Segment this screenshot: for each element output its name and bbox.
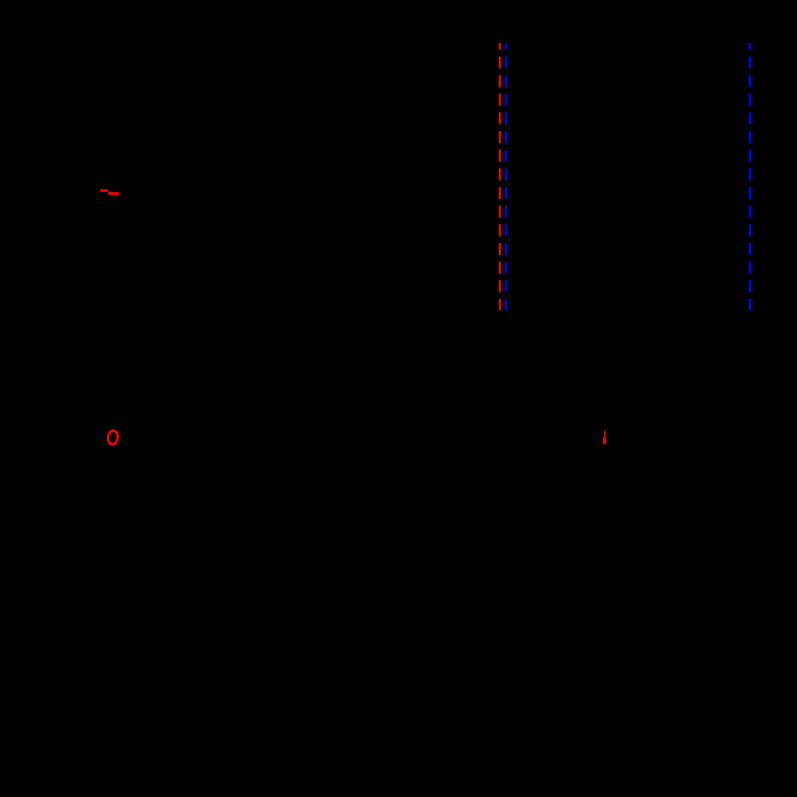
red vertical tick marker bbox=[603, 431, 606, 445]
red dash fragment A (upper-left) bbox=[100, 189, 108, 192]
blue dashed vertical line (right of pair) bbox=[505, 43, 507, 310]
red oval marker O bbox=[107, 430, 118, 445]
red dash fragment B (upper-left) bbox=[108, 192, 119, 196]
blue dashed vertical line (far right) bbox=[749, 43, 751, 310]
red dashed vertical line (left of pair) bbox=[499, 43, 501, 310]
